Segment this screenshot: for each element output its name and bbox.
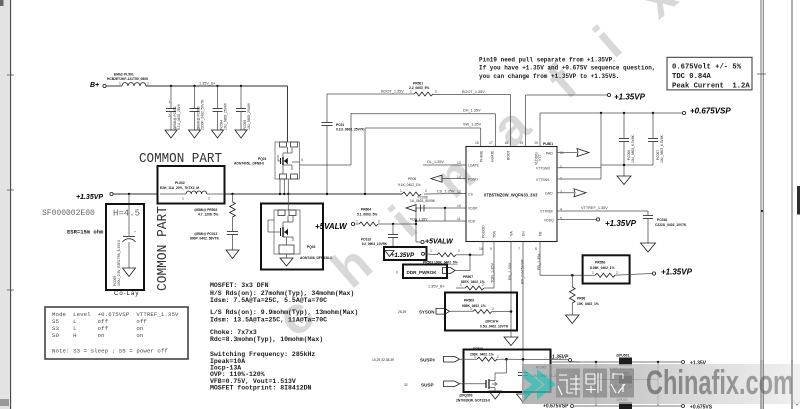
ground	[226, 250, 239, 259]
svg-text:PR509: PR509	[464, 299, 474, 303]
resistor pack PU502	[595, 362, 597, 380]
node +0.675VSP	[540, 112, 682, 114]
right border dot	[761, 210, 763, 212]
svg-text:If you have +1.35V and +0.675V: If you have +1.35V and +0.675V sequence …	[479, 65, 655, 72]
svg-text:PGOOD: PGOOD	[482, 225, 486, 238]
svg-text:BOOT: BOOT	[507, 150, 511, 160]
junction	[240, 85, 242, 87]
svg-text:L/S Rds(on): 9.9mohm(Typ), 13m: L/S Rds(on): 9.9mohm(Typ), 13mohm(Max)	[210, 309, 358, 316]
svg-text:SUSP: SUSP	[421, 382, 434, 387]
wire B+ to PL501	[106, 85, 122, 87]
svg-text:VDD: VDD	[468, 220, 476, 224]
svg-text:15: 15	[475, 141, 479, 145]
ground	[212, 130, 224, 138]
svg-text:PR558: PR558	[595, 261, 605, 265]
left border tick y290	[7, 289, 14, 291]
capacitor PC007	[652, 113, 654, 138]
svg-text:Idsm: 13.5A@Ta=25C, 11A@Ta=70C: Idsm: 13.5A@Ta=25C, 11A@Ta=70C	[210, 317, 327, 324]
svg-text:SF000002E00: SF000002E00	[42, 209, 95, 218]
wire SW net	[365, 127, 481, 129]
svg-text:28,29: 28,29	[398, 310, 406, 314]
svg-text:PR08: PR08	[577, 297, 585, 301]
wire PQ01 gate to DH net	[300, 164, 352, 166]
svg-text:9.1K_0402_1%: 9.1K_0402_1%	[398, 183, 421, 187]
right border line outer	[791, 0, 793, 409]
right border lines over watermark	[760, 360, 762, 409]
wire VTTREF	[557, 210, 648, 212]
wire PQ01 source stubs to rail	[279, 179, 281, 194]
svg-text:0.1U_0402_25V6: 0.1U_0402_25V6	[177, 104, 181, 130]
svg-text:PR501: PR501	[413, 82, 423, 86]
page left margin strip	[0, 0, 9, 409]
svg-text:TDC 0.84A: TDC 0.84A	[672, 73, 712, 81]
svg-text:EN_0.675VSP: EN_0.675VSP	[521, 259, 525, 284]
capacitor PC003	[190, 86, 205, 130]
junction	[216, 85, 218, 87]
svg-text:10,29,32,38,39: 10,29,32,38,39	[372, 358, 394, 362]
capacitor PC009 box	[128, 194, 130, 213]
left border line	[10, 0, 12, 409]
svg-text:GND: GND	[545, 191, 553, 195]
left border tick y190	[7, 189, 14, 191]
svg-text:EMI@ PL501: EMI@ PL501	[114, 73, 134, 77]
svg-text:+1.35VP: +1.35VP	[661, 268, 693, 277]
svg-text:1: 1	[400, 189, 402, 193]
svg-text:800P_0402_56VTK: 800P_0402_56VTK	[190, 237, 220, 241]
svg-text:18: 18	[505, 141, 509, 145]
transistor PQ02	[268, 210, 332, 260]
svg-text:2200P_0402_50VTK: 2200P_0402_50VTK	[201, 99, 205, 130]
svg-text:FB_1.35a: FB_1.35a	[537, 253, 541, 270]
svg-text:BOOT_1.35V: BOOT_1.35V	[381, 90, 404, 94]
junction	[128, 193, 130, 195]
wire B+ down to PQ01 drain	[287, 86, 289, 142]
svg-text:+1.35VP: +1.35VP	[605, 219, 637, 228]
svg-text:PC018: PC018	[657, 218, 667, 222]
ground	[517, 394, 530, 402]
junction	[231, 193, 233, 195]
svg-text:9: 9	[490, 247, 492, 251]
svg-text:PR510: PR510	[473, 347, 483, 351]
svg-text:1: 1	[356, 220, 358, 224]
svg-text:VDDQ: VDDQ	[544, 218, 554, 222]
wire +1.35V rail	[551, 361, 620, 363]
bottom-left corner mark	[0, 399, 9, 406]
svg-text:@PCA'H: @PCA'H	[485, 320, 499, 324]
svg-text:FB: FB	[539, 231, 543, 236]
wire VDD/VDDP vertical	[415, 208, 417, 242]
resistor PR503	[425, 254, 438, 255]
wire BOOT net	[327, 93, 414, 95]
svg-text:16: 16	[479, 247, 483, 251]
svg-text:19: 19	[520, 141, 524, 145]
svg-text:VDDP: VDDP	[468, 207, 478, 211]
svg-text:VTTREF: VTTREF	[540, 210, 553, 214]
svg-text:1.35V_B+: 1.35V_B+	[428, 284, 446, 288]
svg-text:@EMI@ PC012: @EMI@ PC012	[194, 232, 217, 236]
svg-text:HCB2ET2KF-121T50_0805: HCB2ET2KF-121T50_0805	[107, 77, 148, 81]
svg-text:17: 17	[489, 141, 493, 145]
right edge small mark	[793, 400, 800, 405]
spec box 0.675Volt	[667, 57, 752, 90]
svg-text:Pin19 need pull separate from: Pin19 need pull separate from +1.35VP.	[479, 57, 616, 64]
svg-text:PHASE: PHASE	[480, 150, 484, 162]
svg-text:PL002: PL002	[175, 181, 185, 185]
inductor PL002	[160, 193, 186, 195]
svg-text:32: 32	[404, 383, 408, 387]
svg-text:1.35V_B+: 1.35V_B+	[199, 82, 217, 86]
ground	[617, 176, 631, 185]
svg-text:2: 2	[482, 283, 484, 287]
svg-text:DDR_PWROK: DDR_PWROK	[407, 270, 438, 275]
capacitor PC006	[623, 113, 625, 138]
svg-text:VTTSNS: VTTSNS	[536, 178, 550, 182]
svg-text:Co-Lay: Co-Lay	[114, 291, 139, 297]
svg-text:0TB5TMZ0W_WQFN33_3X3: 0TB5TMZ0W_WQFN33_3X3	[484, 193, 538, 198]
capacitor PC004	[213, 86, 228, 130]
wire VDD pin11	[416, 220, 466, 222]
svg-text:AON7406_DFN33U-0: AON7406_DFN33U-0	[300, 256, 332, 260]
svg-text:H/S Rds(on): 27mohm(Typ), 34mo: H/S Rds(on): 27mohm(Typ), 34mohm(Max)	[210, 290, 354, 297]
svg-text:DL_1.35V: DL_1.35V	[427, 160, 444, 164]
resistor PR05 on CS net	[402, 192, 421, 196]
svg-text:10K_0402_1%: 10K_0402_1%	[577, 302, 599, 306]
svg-text:VTTREF_1.35V: VTTREF_1.35V	[581, 206, 608, 210]
capacitor PC012	[190, 232, 238, 251]
svg-text:COMMON PART: COMMON PART	[156, 206, 171, 291]
wire DH net	[351, 113, 496, 115]
svg-text:HGATE: HGATE	[491, 150, 495, 162]
svg-text:1U_0603_10V5K: 1U_0603_10V5K	[362, 242, 388, 246]
node +1.35VP top	[526, 94, 608, 96]
svg-text:330U_2.5V_E3R1TPA_6.3X5.5: 330U_2.5V_E3R1TPA_6.3X5.5	[117, 240, 121, 286]
svg-text:SUSP#: SUSP#	[420, 358, 436, 363]
svg-text:1: 1	[430, 249, 432, 253]
svg-text:+5VALW: +5VALW	[315, 222, 348, 231]
right border tick	[757, 73, 766, 75]
svg-text:1: 1	[119, 82, 121, 86]
svg-text:4.7_1206_5%: 4.7_1206_5%	[198, 213, 218, 217]
svg-text:2: 2	[208, 197, 210, 201]
svg-text:PR507: PR507	[463, 275, 473, 279]
svg-text:3: 3	[560, 190, 562, 194]
svg-text:7: 7	[518, 247, 520, 251]
svg-text:1: 1	[592, 271, 594, 275]
capacitor PC013	[392, 224, 394, 234]
capacitor PC01 bootstrap	[322, 122, 333, 124]
svg-text:10U_0805_25V6X: 10U_0805_25V6X	[224, 102, 228, 130]
svg-text:2: 2	[435, 90, 437, 94]
svg-text:you can change from +1.35VP to: you can change from +1.35VP to +1.35VS.	[479, 73, 619, 80]
svg-text:@PU501: @PU501	[616, 354, 629, 358]
svg-text:Chinafix.com: Chinafix.com	[646, 364, 794, 402]
svg-text:2N7002KW_SOT323-0: 2N7002KW_SOT323-0	[456, 398, 490, 402]
svg-text:8.06K_0402_1%: 8.06K_0402_1%	[590, 266, 615, 270]
ground	[123, 268, 136, 277]
svg-text:PR604: PR604	[361, 208, 371, 212]
svg-text:1: 1	[474, 355, 476, 359]
wire PGOOD down	[482, 242, 484, 256]
svg-text:@PQ503: @PQ503	[459, 394, 473, 398]
svg-text:NA: NA	[510, 231, 514, 236]
svg-text:1: 1	[460, 283, 462, 287]
resistor PR509 box	[445, 293, 517, 331]
resistor PR502	[194, 194, 235, 231]
wire 1.35V_B+ rail	[146, 85, 288, 87]
ground	[489, 391, 502, 399]
inductor PL002 box	[158, 166, 225, 204]
capacitor PC005	[236, 86, 251, 130]
node +1.35VP at VDDQ	[557, 218, 596, 220]
ground inside PQ02 box	[286, 254, 288, 258]
op-amp U1 PU801 body	[466, 147, 557, 242]
svg-text:13: 13	[457, 161, 461, 165]
svg-text:Choke: 7x7x3: Choke: 7x7x3	[210, 329, 257, 336]
svg-text:12: 12	[457, 190, 461, 194]
svg-text:PQ02: PQ02	[307, 245, 316, 249]
wire +1.35VP rail	[113, 193, 158, 195]
svg-text:10: 10	[457, 204, 461, 208]
svg-text:EN: EN	[522, 231, 526, 236]
transistor PQ503	[456, 359, 506, 402]
svg-text:Note: S3 = sleep ; S5 = power: Note: S3 = sleep ; S5 = power off	[52, 348, 168, 355]
right border double line	[760, 0, 762, 409]
svg-text:2: 2	[492, 307, 494, 311]
svg-text:0.675Volt +/- 5%: 0.675Volt +/- 5%	[672, 63, 742, 71]
svg-text:21: 21	[560, 151, 564, 155]
svg-text:2: 2	[378, 220, 380, 224]
svg-text:TON: TON	[493, 230, 497, 238]
resistor pack PU501	[619, 358, 632, 366]
svg-text:1U_0603_50V5K: 1U_0603_50V5K	[410, 199, 436, 203]
svg-text:PGND: PGND	[468, 177, 478, 181]
svg-text:PQ01: PQ01	[258, 157, 267, 161]
svg-text:PR05: PR05	[408, 177, 416, 181]
resistor PR510 box	[464, 350, 551, 393]
resistor PR558 box	[583, 255, 630, 283]
wire VDDP pin10	[416, 207, 466, 209]
svg-text:10U_0805_25U6X: 10U_0805_25U6X	[247, 102, 251, 130]
svg-text:H=4.5: H=4.5	[113, 209, 140, 219]
resistor PR604	[355, 223, 359, 225]
svg-text:COMMON PART: COMMON PART	[139, 152, 222, 167]
wire +0.675VS rail	[595, 380, 597, 407]
svg-text:PC01: PC01	[336, 123, 344, 127]
svg-text:+5VALW: +5VALW	[425, 239, 454, 246]
svg-text:2: 2	[169, 114, 171, 118]
svg-text:CS_1.35V: CS_1.35V	[437, 190, 455, 194]
capacitor PC045	[518, 372, 528, 374]
ground	[189, 130, 201, 138]
svg-text:+1.35VP: +1.35VP	[391, 253, 415, 259]
svg-text:689K_0402_1%: 689K_0402_1%	[462, 304, 486, 308]
svg-text:11: 11	[457, 217, 461, 221]
node +1.35VP boxed terminal	[384, 247, 427, 260]
node +5VALW lower	[416, 241, 421, 243]
ground below PR509	[510, 331, 512, 338]
svg-text:B+: B+	[90, 82, 99, 89]
svg-text:4: 4	[301, 158, 303, 162]
right edge black bar	[797, 186, 800, 215]
top-left corner mark	[0, 0, 4, 6]
resistor PR08	[571, 275, 573, 287]
transistor PQ01	[234, 142, 303, 179]
ground	[641, 243, 656, 252]
capacitor PC009	[128, 213, 130, 236]
svg-text:2: 2	[147, 82, 149, 86]
svg-text:2: 2	[560, 177, 562, 181]
left border tick y75	[7, 74, 14, 76]
capacitor PC002	[166, 86, 181, 130]
svg-text:+1.35VP: +1.35VP	[549, 354, 569, 360]
wire VTT gnd bus	[601, 164, 653, 166]
svg-text:+1.35VP: +1.35VP	[614, 92, 646, 101]
svg-text:2: 2	[616, 271, 618, 275]
svg-text:SYSON: SYSON	[419, 309, 434, 314]
svg-text:20: 20	[535, 141, 539, 145]
svg-text:EN_1.35V: EN_1.35V	[508, 262, 512, 280]
svg-text:AON7405L_DFN8-0: AON7405L_DFN8-0	[234, 162, 264, 166]
junction	[193, 85, 195, 87]
svg-text:S0 H on on: S0 H on on	[52, 332, 143, 339]
svg-text:Peak Current 1.2A: Peak Current 1.2A	[672, 83, 750, 91]
svg-text:2: 2	[458, 249, 460, 253]
svg-text:LGATE: LGATE	[468, 164, 480, 168]
wire rail into PQ02 drain	[287, 194, 289, 210]
svg-text:BOOT_1.35V: BOOT_1.35V	[462, 90, 485, 94]
resistor pack PU06	[619, 402, 632, 409]
svg-text:10U_0603_6.3V6K: 10U_0603_6.3V6K	[631, 134, 635, 163]
svg-text:S3 L off on: S3 L off on	[52, 325, 143, 332]
svg-text:TON_1.35V: TON_1.35V	[491, 263, 495, 283]
ground	[566, 315, 580, 324]
svg-text:VTT: VTT	[538, 155, 542, 161]
svg-text:CS: CS	[468, 192, 473, 196]
ground	[165, 130, 177, 138]
svg-text:MOSFET: 3x3 DFN: MOSFET: 3x3 DFN	[210, 282, 269, 289]
svg-text:DH_1.35V: DH_1.35V	[463, 109, 481, 113]
svg-text:PU801: PU801	[543, 142, 553, 146]
svg-text:1: 1	[182, 197, 184, 201]
svg-text:PC013: PC013	[361, 238, 371, 242]
svg-text:1: 1	[169, 100, 171, 104]
svg-text:ESR=15m ohm: ESR=15m ohm	[67, 229, 104, 236]
svg-text:Switching Frequency: 285kHz: Switching Frequency: 285kHz	[210, 351, 315, 358]
junction	[170, 85, 172, 87]
wire BOOT down to pin18	[510, 95, 512, 147]
svg-text:+: +	[134, 230, 136, 234]
svg-text:10U_0603_6.3V6K: 10U_0603_6.3V6K	[660, 134, 664, 163]
svg-text:S5 L off off: S5 L off off	[52, 318, 147, 325]
svg-text:MOSFET footprint: 8I8412DN: MOSFET footprint: 8I8412DN	[210, 385, 312, 392]
svg-text:0.5U_0402_10VTK: 0.5U_0402_10VTK	[480, 325, 509, 329]
svg-text:1: 1	[470, 307, 472, 311]
node DDR_PWROK flag box	[403, 265, 447, 279]
svg-text:E2H_11A_20%_7K7X3_M: E2H_11A_20%_7K7X3_M	[160, 186, 199, 190]
wire rail to IC CS	[225, 193, 403, 195]
svg-text:VTTGND: VTTGND	[536, 166, 550, 170]
ground	[235, 130, 247, 138]
svg-text:@EMI@ PR502: @EMI@ PR502	[194, 208, 217, 212]
svg-text:+0.675VSP: +0.675VSP	[543, 404, 569, 409]
svg-text:1: 1	[410, 90, 412, 94]
svg-text:2: 2	[425, 189, 427, 193]
svg-text:5.1_0603_5%: 5.1_0603_5%	[357, 213, 377, 217]
svg-text:C222U_0402_10V7K: C222U_0402_10V7K	[655, 223, 687, 227]
svg-text:0: 0	[396, 271, 398, 275]
svg-text:+0.675VS: +0.675VS	[690, 404, 713, 409]
svg-text:2.2_0603_5%: 2.2_0603_5%	[409, 86, 429, 90]
capacitor PC018	[647, 211, 649, 215]
svg-text:14: 14	[457, 175, 461, 179]
svg-text:+0.675VSP: +0.675VSP	[690, 106, 731, 115]
svg-text:8: 8	[535, 247, 537, 251]
svg-text:Idsm: 7.5A@Ta=25C, 5.5A@Ta=70C: Idsm: 7.5A@Ta=25C, 5.5A@Ta=70C	[210, 297, 327, 304]
svg-text:2: 2	[497, 355, 499, 359]
svg-text:Mode Level +0.675VSP VTTREF: Mode Level +0.675VSP VTTREF_1.35V	[52, 311, 179, 318]
svg-text:0.1U_0603_25V7K: 0.1U_0603_25V7K	[336, 128, 365, 132]
svg-text:Rdc=8.3mohm(Typ), 10mohm(Max): Rdc=8.3mohm(Typ), 10mohm(Max)	[210, 336, 323, 343]
svg-text:+1.35VP: +1.35VP	[76, 194, 103, 201]
svg-text:SW_1.35V: SW_1.35V	[463, 123, 482, 127]
svg-text:PAD: PAD	[546, 152, 553, 156]
